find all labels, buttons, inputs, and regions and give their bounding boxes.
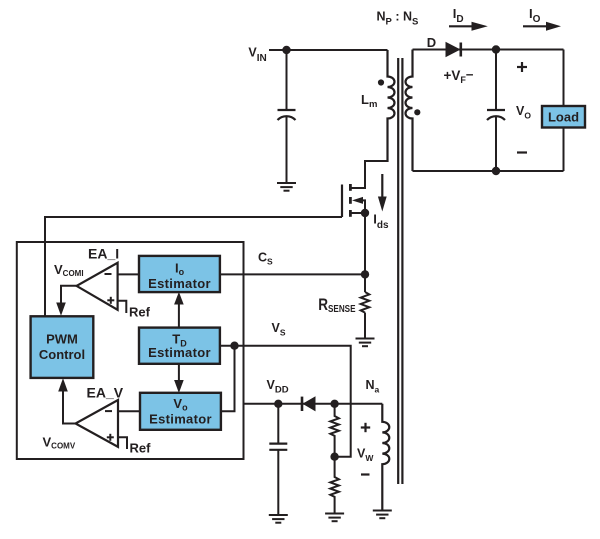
wire EA_V output to PWM [63, 391, 76, 424]
wire Io estimator to EA_I inverting input [117, 273, 139, 275]
wire output cap upper lead [495, 50, 497, 111]
node output return junction [492, 167, 500, 175]
wire Ref stub EA_I [117, 301, 126, 313]
primary polarity dot [378, 79, 384, 85]
wire EA_I output to PWM [61, 286, 77, 303]
wire output cap lower lead [495, 116, 497, 172]
wire RSENSE to ground [364, 313, 366, 339]
secondary polarity dot [414, 109, 420, 115]
Io Estimator block [139, 256, 220, 292]
capacitor input bulk [278, 110, 296, 120]
node CS junction [361, 270, 369, 278]
ground VDD cap [269, 515, 288, 523]
wire load lower lead [563, 128, 565, 172]
svg-text:EA_I: EA_I [88, 246, 119, 262]
op-amp EA_I [77, 263, 118, 310]
svg-text:Ref: Ref [130, 441, 152, 456]
minus output [517, 151, 527, 153]
plus aux [361, 423, 370, 432]
resistor divider lower [330, 457, 339, 514]
node VDD junction [274, 400, 282, 408]
wire VIN cap upper lead [286, 50, 288, 110]
wire Vo estimator to EA_V inverting input [118, 410, 140, 412]
plus output [517, 62, 527, 72]
svg-text:Estimator: Estimator [148, 345, 211, 360]
load box [542, 106, 585, 128]
resistor divider upper [330, 404, 339, 457]
controller box [17, 242, 244, 459]
svg-text:Control: Control [39, 347, 85, 362]
arrow ID [449, 22, 488, 31]
svg-text:EA_V: EA_V [87, 385, 124, 401]
wire load upper lead [563, 50, 565, 107]
svg-text:Load: Load [548, 110, 579, 125]
svg-text:D: D [427, 35, 436, 50]
plus EA_I [107, 297, 114, 304]
transformer primary winding Lm [388, 50, 395, 162]
TD Estimator block [139, 328, 220, 364]
ground divider [325, 514, 344, 522]
arrow TD to Vo [174, 364, 184, 393]
transformer core [398, 58, 402, 484]
node divider top junction [330, 400, 338, 408]
wire MOSFET source to RSENSE [364, 213, 366, 292]
wire Ref stub EA_V [118, 437, 127, 449]
node divider mid junction [330, 453, 338, 461]
node VIN junction [282, 46, 290, 54]
wire VS sense line [220, 346, 351, 457]
svg-text:Estimator: Estimator [149, 411, 212, 426]
ground RSENSE [356, 339, 375, 347]
svg-text:PWM: PWM [46, 332, 78, 347]
wire primary bottom to MOSFET drain [352, 161, 388, 188]
winding Na auxiliary [382, 404, 389, 511]
node MOSFET source junction [361, 209, 369, 217]
arrowhead into PWM top [56, 303, 66, 316]
wire VDD cap upper lead [277, 404, 279, 444]
wire VIN to transformer primary top [269, 49, 388, 51]
wire CS sense line [220, 273, 365, 275]
transformer secondary winding [406, 50, 413, 172]
PWM Control block [31, 316, 94, 378]
diode VDD rectifier [302, 396, 316, 411]
svg-text:Estimator: Estimator [148, 276, 211, 291]
diode D [446, 42, 461, 57]
node TD output junction [230, 342, 238, 350]
minus EA_I [105, 273, 112, 275]
ground aux winding [373, 511, 392, 519]
ground input cap [277, 183, 296, 191]
capacitor VDD [269, 444, 287, 450]
transistor Q1 MOSFET [342, 184, 365, 217]
arrowhead into PWM bottom [58, 378, 68, 391]
wire VDD cap lower lead [277, 450, 279, 515]
arrow TD to Io [174, 292, 184, 327]
arrow Ids [378, 174, 387, 212]
Vo Estimator block [140, 393, 221, 430]
node rectifier output junction [492, 45, 500, 53]
arrow IO [523, 22, 561, 31]
op-amp EA_V [76, 400, 119, 447]
minus EA_V [105, 410, 112, 412]
svg-text:Ref: Ref [129, 305, 151, 320]
wire gate to PWM control [45, 217, 342, 316]
minus aux [361, 473, 370, 475]
wire secondary bottom return [413, 170, 564, 172]
wire Vo estimator right link [221, 346, 235, 412]
plus EA_V [107, 434, 114, 441]
wire VDD line [244, 403, 383, 405]
wire VIN cap lower lead [286, 116, 288, 184]
resistor RSENSE [361, 292, 370, 313]
capacitor output [487, 110, 505, 120]
wire secondary top to output [413, 49, 564, 51]
